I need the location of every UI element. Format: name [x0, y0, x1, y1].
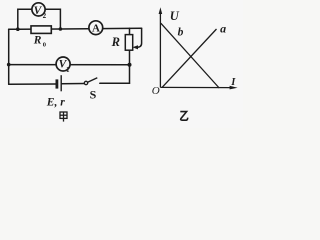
node V1-left dot	[7, 63, 11, 67]
svg-text:O: O	[152, 85, 160, 97]
wire slider arm	[137, 28, 142, 47]
voltmeter V2	[32, 3, 47, 20]
svg-text:b: b	[178, 27, 184, 39]
slider arrowhead	[132, 45, 138, 49]
svg-text:E, r: E, r	[46, 96, 65, 108]
wire V2 loop left	[18, 9, 32, 29]
wire left vertical	[8, 29, 10, 84]
wire switch to corner	[100, 82, 130, 84]
switch S	[84, 78, 97, 102]
resistor R0	[31, 26, 51, 48]
axis I	[160, 86, 230, 88]
svg-text:0: 0	[43, 41, 46, 48]
wire bottom left	[9, 83, 56, 85]
voltmeter V1	[56, 57, 70, 74]
wire rheostat top stub	[129, 28, 131, 34]
battery E,r	[46, 75, 65, 108]
node L dot	[16, 27, 20, 31]
wire V2 loop right	[45, 9, 60, 29]
wire battery to switch	[61, 83, 84, 85]
svg-text:R: R	[111, 35, 120, 49]
label jia (甲)	[60, 112, 67, 122]
ammeter A	[89, 21, 103, 35]
svg-text:2: 2	[43, 12, 47, 20]
wire R0 row	[18, 28, 61, 30]
label yi (乙)	[180, 112, 187, 121]
axis U	[159, 13, 161, 88]
svg-text:V: V	[34, 5, 43, 17]
wire V1 row	[9, 64, 130, 66]
svg-text:S: S	[90, 88, 97, 102]
line b	[161, 23, 219, 88]
wire top-left stub	[9, 28, 18, 30]
node R dot	[59, 27, 63, 31]
svg-text:a: a	[220, 22, 226, 36]
rheostat R	[111, 35, 133, 51]
wire ammeter row	[60, 27, 141, 30]
line a	[162, 29, 216, 87]
node V1-right dot	[128, 63, 132, 67]
svg-text:U: U	[170, 9, 180, 23]
svg-text:R: R	[33, 35, 42, 47]
svg-text:1: 1	[66, 66, 70, 74]
wire right vertical below R	[129, 50, 131, 83]
svg-text:A: A	[92, 22, 100, 34]
